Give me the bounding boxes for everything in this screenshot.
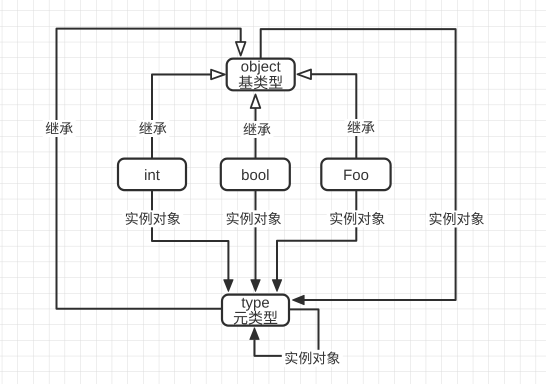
wire object-to-type instance (right loop) (261, 29, 456, 300)
wire bool inheritance to object (255, 108, 257, 159)
wire Foo inheritance to object (311, 74, 356, 158)
wire int inheritance to object (152, 75, 212, 159)
box object base type (227, 59, 295, 91)
label inherit bool (241, 121, 274, 138)
label instance int (122, 210, 183, 227)
label inherit Foo (345, 119, 378, 136)
wire int instance to type (152, 190, 228, 280)
wire bool instance to type (255, 190, 257, 280)
wire Foo instance to type (277, 190, 356, 280)
label instance right (426, 211, 487, 228)
label inherit left (43, 120, 76, 137)
wire type-to-object inheritance (left loop) (57, 29, 241, 309)
label instance Foo (327, 210, 388, 227)
label instance bool (223, 210, 284, 227)
label instance bottom (282, 350, 343, 367)
box bool (221, 159, 290, 191)
box int (118, 159, 186, 191)
label inherit int (136, 120, 169, 137)
box type metatype (222, 295, 289, 326)
box Foo (321, 159, 390, 191)
wire type self instance loop (255, 309, 319, 356)
